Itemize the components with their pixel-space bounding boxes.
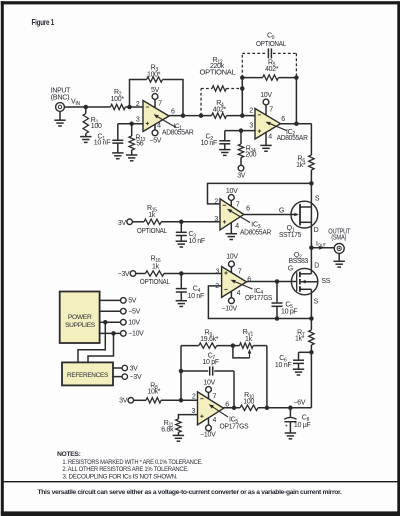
svg-text:10k*: 10k*: [147, 389, 160, 396]
svg-text:INPUT: INPUT: [51, 87, 71, 94]
svg-text:10 nF: 10 nF: [188, 293, 204, 300]
svg-text:4: 4: [157, 122, 161, 129]
svg-text:10 nF: 10 nF: [189, 238, 205, 245]
svg-text:3V: 3V: [130, 365, 139, 372]
svg-text:NOTES:: NOTES:: [57, 451, 81, 458]
svg-text:19.6k*: 19.6k*: [200, 336, 219, 343]
svg-text:SUPPLIES: SUPPLIES: [65, 322, 96, 329]
svg-text:1k: 1k: [245, 336, 253, 343]
svg-text:10V: 10V: [128, 320, 140, 327]
svg-text:1k*: 1k*: [296, 162, 306, 169]
svg-text:OPTIONAL: OPTIONAL: [137, 228, 167, 235]
svg-text:(SMA): (SMA): [331, 235, 346, 242]
svg-text:OPTIONAL: OPTIONAL: [200, 69, 236, 76]
svg-text:6: 6: [246, 206, 250, 213]
svg-text:3V: 3V: [119, 398, 128, 405]
svg-text:10 pF: 10 pF: [202, 359, 218, 366]
svg-text:AD8055AR: AD8055AR: [240, 229, 271, 236]
svg-text:G: G: [288, 266, 293, 273]
svg-text:3V: 3V: [237, 173, 246, 180]
svg-text:−10V: −10V: [222, 306, 238, 313]
svg-text:56: 56: [136, 141, 144, 148]
svg-text:2: 2: [215, 283, 219, 290]
svg-text:(BNC): (BNC): [51, 95, 70, 102]
svg-text:10 nF: 10 nF: [94, 140, 110, 147]
svg-text:3: 3: [136, 116, 140, 123]
svg-text:100: 100: [243, 398, 254, 405]
svg-text:10 µF: 10 µF: [294, 422, 311, 429]
svg-text:6: 6: [171, 108, 175, 115]
svg-text:2: 2: [214, 199, 218, 206]
svg-text:100: 100: [91, 123, 102, 130]
svg-text:−5V: −5V: [149, 138, 161, 145]
svg-text:OPTIONAL: OPTIONAL: [256, 41, 286, 48]
svg-text:200: 200: [245, 152, 256, 159]
svg-text:7: 7: [269, 106, 273, 113]
svg-text:−10V: −10V: [128, 331, 144, 338]
svg-text:10 nF: 10 nF: [275, 362, 291, 369]
svg-text:7: 7: [238, 269, 242, 276]
svg-text:AD8055AR: AD8055AR: [277, 135, 308, 142]
svg-text:6: 6: [247, 276, 251, 283]
svg-text:G: G: [279, 207, 284, 214]
svg-text:10V: 10V: [203, 380, 215, 387]
svg-text:OP177GS: OP177GS: [245, 295, 273, 302]
svg-text:2: 2: [249, 107, 253, 114]
svg-text:POWER: POWER: [68, 314, 92, 321]
svg-text:10V: 10V: [260, 92, 272, 99]
svg-text:−3V: −3V: [118, 271, 130, 278]
svg-text:2: 2: [192, 393, 196, 400]
svg-text:1k: 1k: [148, 212, 156, 219]
svg-text:AD8055AR: AD8055AR: [162, 129, 194, 136]
svg-text:−5V: −5V: [128, 309, 140, 316]
svg-text:5V: 5V: [151, 87, 160, 94]
svg-text:Figure 1: Figure 1: [32, 18, 55, 27]
svg-text:3: 3: [249, 122, 253, 129]
svg-text:OPTIONAL: OPTIONAL: [140, 279, 170, 286]
svg-text:−6V: −6V: [294, 400, 306, 407]
svg-text:2. ALL OTHER RESISTORS ARE 1%: 2. ALL OTHER RESISTORS ARE 1% TOLERANCE.: [62, 466, 189, 473]
svg-text:402*: 402*: [265, 66, 279, 73]
svg-text:BSS83: BSS83: [289, 258, 309, 265]
svg-text:10 nF: 10 nF: [201, 140, 217, 147]
svg-text:−10V: −10V: [200, 432, 216, 439]
svg-text:D: D: [314, 262, 319, 269]
svg-text:SS: SS: [321, 278, 330, 285]
svg-text:OP177GS: OP177GS: [220, 423, 249, 430]
svg-text:100*: 100*: [147, 71, 161, 78]
svg-text:+: +: [285, 423, 288, 429]
svg-text:4: 4: [268, 133, 272, 140]
svg-text:−3V: −3V: [130, 374, 142, 381]
svg-text:5V: 5V: [128, 298, 137, 305]
svg-text:402*: 402*: [213, 106, 227, 113]
svg-text:6.8k: 6.8k: [161, 427, 174, 434]
svg-text:SST175: SST175: [279, 232, 301, 239]
svg-text:3. DECOUPLING FOR ICs IS NOT S: 3. DECOUPLING FOR ICs IS NOT SHOWN.: [62, 474, 178, 481]
svg-text:4: 4: [235, 223, 239, 230]
svg-text:10 pF: 10 pF: [281, 308, 297, 315]
svg-text:REFERENCES: REFERENCES: [67, 372, 109, 379]
svg-text:7: 7: [213, 394, 217, 401]
svg-text:100*: 100*: [111, 96, 125, 103]
svg-text:7: 7: [158, 101, 162, 108]
svg-text:10V: 10V: [226, 254, 238, 261]
svg-text:This versatile circuit can ser: This versatile circuit can serve either …: [38, 489, 343, 496]
svg-text:3: 3: [216, 269, 220, 276]
svg-text:6: 6: [281, 116, 285, 123]
svg-text:3V: 3V: [118, 220, 127, 227]
svg-text:4: 4: [237, 290, 241, 297]
svg-text:4: 4: [213, 417, 217, 424]
svg-text:2: 2: [136, 101, 140, 108]
svg-text:10V: 10V: [226, 188, 238, 195]
svg-text:S: S: [315, 196, 320, 203]
svg-text:S: S: [314, 299, 319, 306]
svg-text:1k: 1k: [152, 263, 160, 270]
svg-text:1k*: 1k*: [295, 336, 305, 343]
svg-text:D: D: [314, 227, 319, 234]
svg-text:7: 7: [236, 202, 240, 209]
svg-text:1. RESISTORS MARKED WITH * ARE: 1. RESISTORS MARKED WITH * ARE 0.1% TOLE…: [62, 459, 202, 466]
